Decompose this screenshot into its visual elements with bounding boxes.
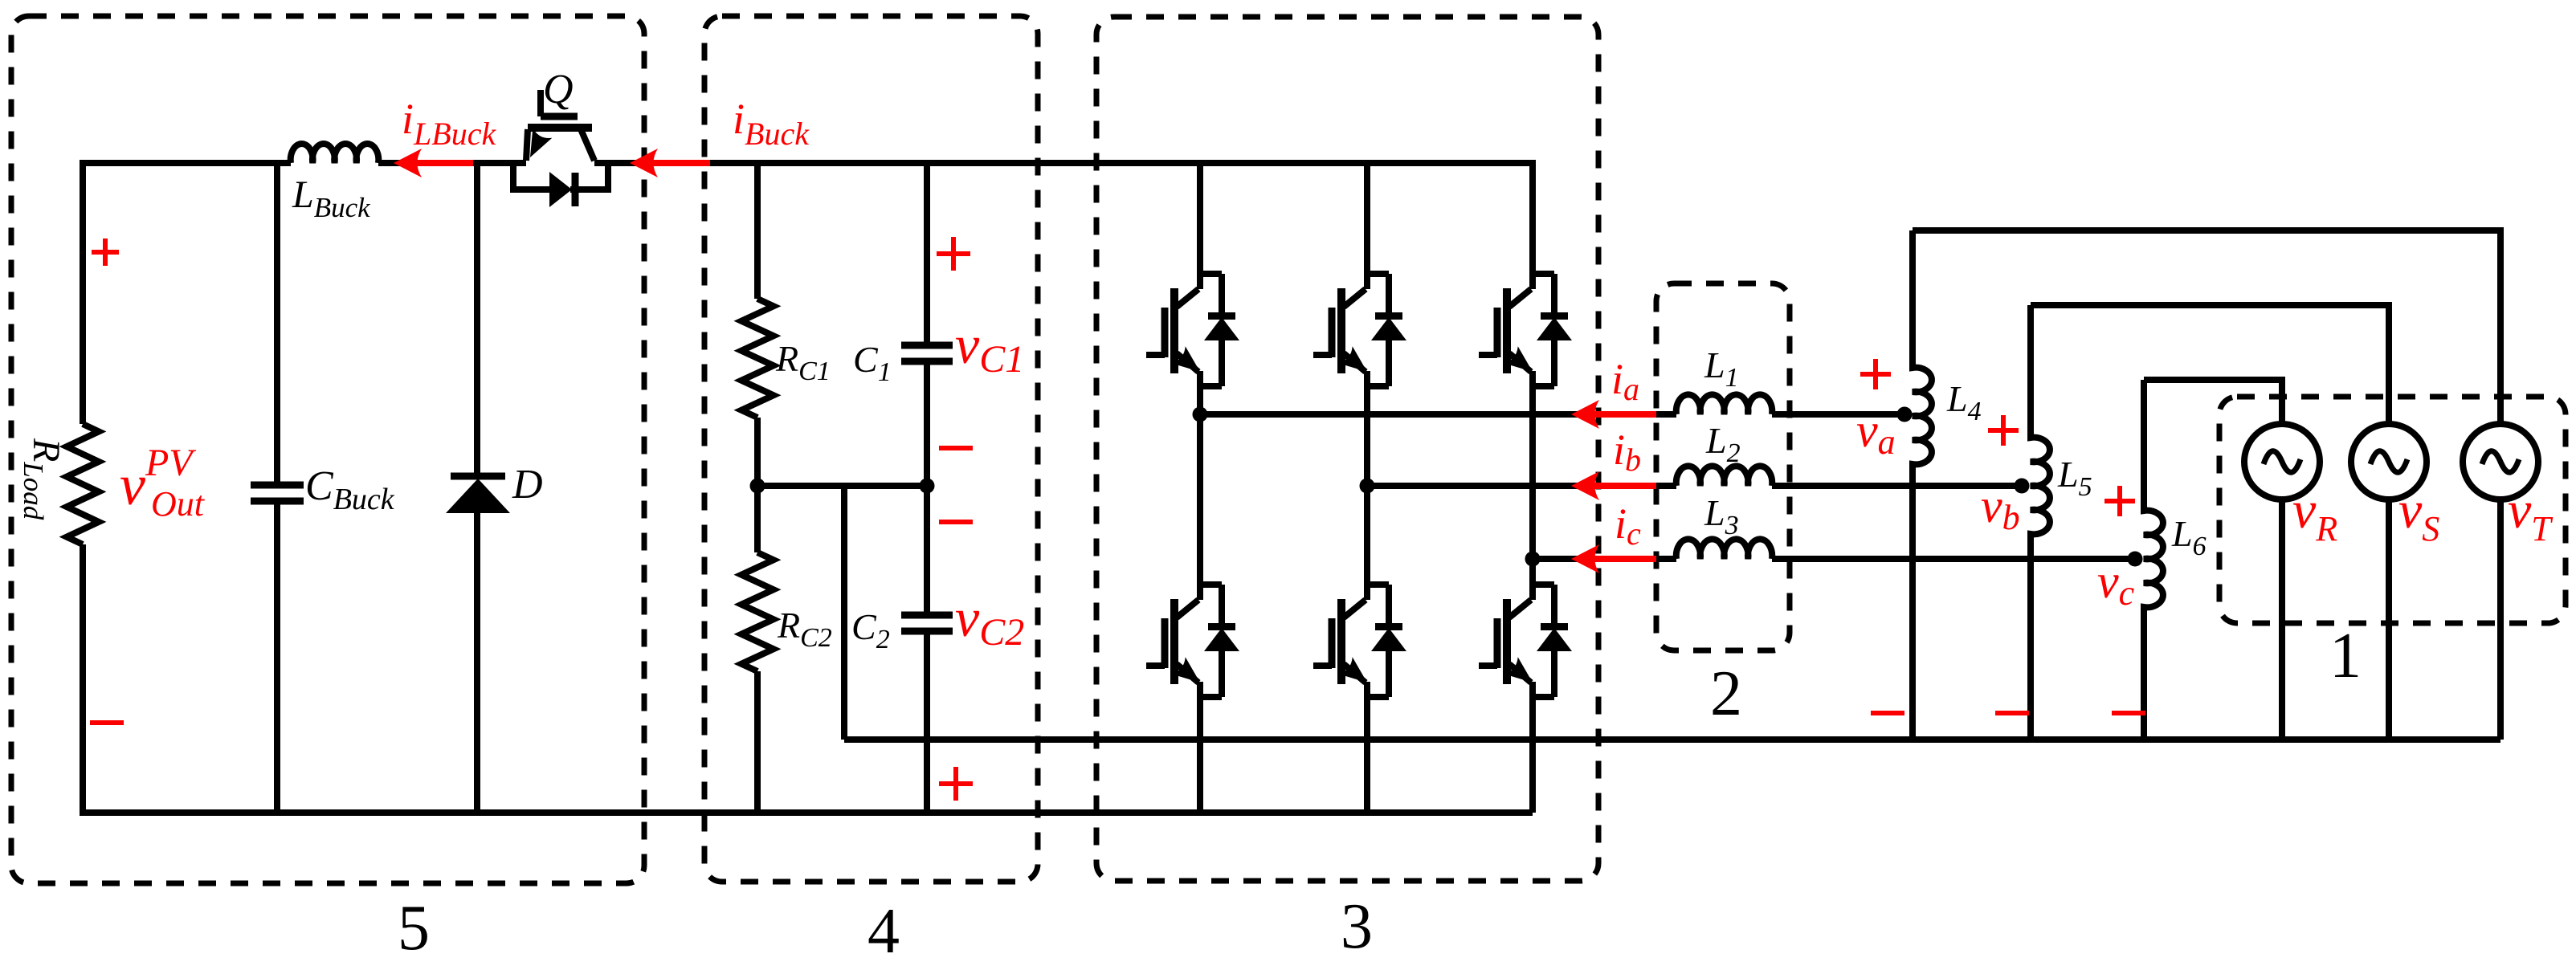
svg-text:2: 2 xyxy=(1710,658,1742,729)
resistor R_C1 xyxy=(741,299,774,418)
wire top rail to v_T xyxy=(1913,230,2500,424)
dashed block 1 boundary xyxy=(2219,397,2566,623)
svg-text:CBuck: CBuck xyxy=(305,463,395,516)
svg-text:LBuck: LBuck xyxy=(292,173,371,223)
svg-text:vC1: vC1 xyxy=(955,314,1024,381)
source v_S xyxy=(2351,424,2427,499)
dashed block 4 boundary xyxy=(704,16,1038,882)
wire phase c to L6 xyxy=(1772,556,2135,562)
bridge leg 3 middle wire xyxy=(1529,386,1536,583)
phase b wire xyxy=(1367,483,1676,489)
bottom DC rail xyxy=(80,809,1533,816)
svg-text:C2: C2 xyxy=(851,606,890,654)
node dot left midpoint xyxy=(750,479,765,494)
svg-text:L3: L3 xyxy=(1704,492,1739,540)
svg-text:RC1: RC1 xyxy=(775,338,831,386)
inductor L5 xyxy=(2031,305,2050,740)
Q antiparallel diode loop xyxy=(513,160,608,190)
svg-text:3: 3 xyxy=(1341,891,1373,962)
source v_T xyxy=(2463,424,2538,499)
bridge leg 1 upper wire xyxy=(1197,160,1203,272)
svg-text:iBuck: iBuck xyxy=(733,95,810,152)
svg-text:L6: L6 xyxy=(2171,513,2207,561)
svg-text:vR: vR xyxy=(2292,481,2337,548)
IGBT T5 xyxy=(1313,583,1406,697)
wire R_C1 branch upper xyxy=(754,160,761,299)
transistor Q (IGBT, horizontal) xyxy=(526,90,594,161)
current arrow i_LBuck xyxy=(416,160,473,166)
svg-text:ic: ic xyxy=(1615,499,1641,552)
inductor L4 xyxy=(1913,230,1932,740)
Q diode xyxy=(549,172,572,207)
inductor L2 xyxy=(1676,466,1772,486)
midpoint wire xyxy=(757,483,927,489)
node dot v_c tap xyxy=(2128,552,2143,567)
svg-text:L4: L4 xyxy=(1946,378,1982,426)
svg-text:iLBuck: iLBuck xyxy=(402,95,496,152)
dashed block 5 boundary xyxy=(11,16,644,883)
phase c wire xyxy=(1533,556,1676,562)
current arrow i_a xyxy=(1594,411,1656,418)
node dot phase a xyxy=(1193,407,1208,422)
svg-text:ia: ia xyxy=(1611,355,1639,407)
svg-text:ib: ib xyxy=(1613,426,1641,478)
wire v_T lower xyxy=(2497,499,2504,740)
wire R_C1 to midpoint xyxy=(754,418,761,486)
svg-text:4: 4 xyxy=(868,896,900,966)
wire C_Buck branch lower xyxy=(274,504,280,813)
node dot phase b xyxy=(1360,479,1375,494)
wire phase b to L5 xyxy=(1772,483,2022,489)
wire C2 branch upper xyxy=(924,486,930,612)
wire diode D branch upper xyxy=(474,160,480,474)
svg-text:C1: C1 xyxy=(853,339,892,387)
source v_R xyxy=(2244,424,2320,499)
svg-text:L2: L2 xyxy=(1705,420,1741,468)
inductor L1 xyxy=(1676,394,1772,414)
inductor L6 xyxy=(2144,380,2163,740)
node dot v_a tap xyxy=(1897,407,1913,422)
bridge leg 3 lower wire xyxy=(1529,697,1536,813)
wire R_C2 branch upper xyxy=(754,486,761,552)
wire R_C2 lower xyxy=(754,671,761,813)
svg-text:L1: L1 xyxy=(1704,344,1739,393)
diode D xyxy=(451,473,505,480)
wire top DC rail from Q collector to bridge leg 3 xyxy=(594,160,1533,166)
svg-text:5: 5 xyxy=(398,893,430,964)
svg-text:vT: vT xyxy=(2508,481,2554,548)
capacitor C_Buck xyxy=(251,485,304,501)
minus sign above C2 xyxy=(939,520,973,524)
wire v_R lower xyxy=(2279,499,2285,740)
wire rail to v_S xyxy=(2031,305,2389,424)
wire C_Buck branch upper xyxy=(274,160,280,482)
svg-text:Q: Q xyxy=(543,67,574,112)
wire C2 lower xyxy=(924,634,930,813)
minus sign v_c xyxy=(2112,711,2145,715)
dashed block 3 boundary xyxy=(1096,17,1598,881)
svg-text:L5: L5 xyxy=(2057,454,2092,502)
wire C1 branch upper xyxy=(924,160,930,342)
minus sign output xyxy=(90,720,124,725)
capacitor C2 xyxy=(901,615,953,631)
svg-text:D: D xyxy=(512,462,543,507)
IGBT T2 xyxy=(1313,272,1406,386)
svg-text:Out: Out xyxy=(151,484,206,524)
inductor L_Buck xyxy=(291,144,379,163)
wire top DC rail left segment xyxy=(83,160,291,166)
plus sign v_a xyxy=(1860,359,1891,389)
wire left branch below R_Load xyxy=(80,544,86,813)
bridge leg 2 middle wire xyxy=(1364,386,1370,583)
minus sign v_a xyxy=(1871,711,1904,715)
current arrow i_b xyxy=(1594,483,1656,489)
wire diode D branch lower xyxy=(474,513,480,813)
capacitor C1 xyxy=(901,345,953,361)
plus sign v_c xyxy=(2104,486,2135,516)
IGBT T1 xyxy=(1146,272,1239,386)
minus sign below C1 xyxy=(939,446,973,450)
phase a wire xyxy=(1200,411,1676,418)
bridge leg 2 upper wire xyxy=(1364,160,1370,272)
plus sign v_b xyxy=(1988,415,2019,446)
current arrow i_Buck xyxy=(652,160,710,166)
wire phase a to L4 xyxy=(1772,411,1904,418)
resistor R_C2 xyxy=(741,552,774,671)
svg-text:1: 1 xyxy=(2329,621,2362,691)
bridge leg 1 middle wire xyxy=(1197,386,1203,583)
wire C1 to midpoint xyxy=(924,365,930,486)
inductor L3 xyxy=(1676,539,1772,559)
plus sign above C1 xyxy=(937,237,970,271)
wire top DC rail between L_Buck and Q xyxy=(378,160,526,166)
minus sign v_b xyxy=(1995,711,2029,715)
plus sign below C2 xyxy=(939,767,973,801)
wire left branch above R_Load xyxy=(80,160,86,424)
node dot v_b tap xyxy=(2015,479,2030,494)
current arrow i_c xyxy=(1594,556,1656,562)
svg-text:RC2: RC2 xyxy=(777,605,832,653)
svg-text:vC2: vC2 xyxy=(955,587,1024,654)
node dot phase c xyxy=(1525,552,1541,567)
wire v_S lower xyxy=(2386,499,2392,740)
bridge leg 1 lower wire xyxy=(1197,697,1203,813)
resistor R_Load xyxy=(67,424,99,544)
wire rail to v_R xyxy=(2144,380,2282,424)
IGBT T3 xyxy=(1479,272,1572,386)
node dot right midpoint xyxy=(920,479,935,494)
IGBT T6 xyxy=(1479,583,1572,697)
svg-text:vS: vS xyxy=(2398,481,2439,548)
bridge leg 2 lower wire xyxy=(1364,697,1370,813)
bridge leg 3 upper wire xyxy=(1529,160,1536,272)
IGBT T4 xyxy=(1146,583,1239,697)
plus sign output xyxy=(92,238,119,266)
svg-text:RLoad: RLoad xyxy=(18,438,67,520)
dashed block 2 boundary xyxy=(1656,283,1790,650)
wire midpoint tap down xyxy=(841,486,847,740)
neutral rail xyxy=(844,736,2500,743)
